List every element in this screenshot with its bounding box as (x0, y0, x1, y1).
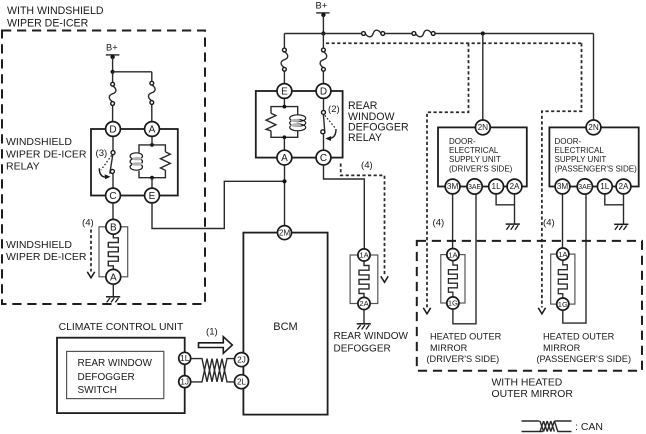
svg-text:1L: 1L (180, 354, 190, 363)
pin 2A (defogger) (358, 297, 370, 309)
fuse F2 (149, 81, 156, 104)
svg-text:(2): (2) (328, 104, 340, 115)
ground (defogger) (357, 324, 371, 330)
wire B+ down (322, 15, 324, 34)
pin 3AE (driver) (467, 179, 482, 194)
pin 2A (passenger) (616, 179, 631, 194)
svg-text:2A: 2A (509, 182, 520, 191)
svg-text:RELAY: RELAY (6, 161, 40, 173)
svg-text:(4): (4) (361, 160, 373, 171)
svg-text:1G: 1G (448, 299, 458, 308)
resistor (rear relay) (266, 113, 276, 131)
dashed drop to passenger unit (542, 43, 582, 307)
wire A down to BCM 2M (284, 165, 286, 226)
svg-text:E: E (281, 87, 288, 98)
svg-text:SUPPLY UNIT: SUPPLY UNIT (449, 155, 501, 164)
svg-text:OUTER MIRROR: OUTER MIRROR (492, 389, 574, 400)
svg-text:DEFOGGER: DEFOGGER (334, 343, 391, 354)
ground (passenger door) (614, 224, 628, 230)
pin 2J (235, 353, 249, 367)
pin 3AE (passenger) (577, 179, 592, 194)
fuse F6 (320, 48, 327, 71)
pin A (145, 122, 160, 137)
switch dotted throw (rear) (325, 115, 335, 128)
wire A to ground (112, 284, 114, 297)
node junction left B+ (111, 70, 115, 74)
svg-text:SUPPLY UNIT: SUPPLY UNIT (555, 155, 607, 164)
ground (driver door) (506, 224, 520, 230)
wire C to de-icer B (112, 203, 114, 221)
switch dotted throw (101, 155, 112, 170)
svg-text:(PASSENGER'S SIDE): (PASSENGER'S SIDE) (537, 354, 632, 364)
wire coil bottom to E (151, 178, 153, 189)
svg-text:1L: 1L (492, 182, 502, 191)
switch blade (2) (323, 114, 325, 133)
fuse F3 (bus) (362, 30, 385, 37)
node rear coil bottom (283, 135, 287, 139)
pin 1L (climate) (179, 352, 191, 364)
svg-text:HEATED OUTER: HEATED OUTER (430, 332, 502, 342)
heated mirror element box (passenger) (551, 254, 575, 304)
node coil bottom (150, 176, 154, 180)
CAN twisted pair wire B (192, 359, 235, 382)
switch upper contact (rear) (322, 110, 326, 114)
node coil top (150, 143, 154, 147)
svg-text:C: C (109, 191, 116, 202)
pin 2A (driver) (507, 179, 522, 194)
svg-text:2A: 2A (618, 182, 629, 191)
switch lower contact (110, 169, 114, 173)
svg-text:DOOR-: DOOR- (449, 137, 476, 146)
pin 1L (driver) (489, 179, 504, 194)
svg-text:3AE: 3AE (578, 184, 591, 191)
wire F5 to pin E (283, 72, 285, 85)
node rear coil top (283, 105, 287, 109)
pin 1G (driver mirror) (447, 297, 459, 309)
svg-text:1L: 1L (600, 182, 610, 191)
pin C (rear relay) (316, 150, 331, 165)
wire C to rear defogger 1A (324, 165, 365, 249)
svg-text:WITH HEATED: WITH HEATED (492, 378, 563, 389)
node main B+ junction (321, 31, 325, 35)
dashed option box (with windshield wiper de-icer) (2, 31, 205, 305)
switch stub from D (rear) (323, 98, 325, 110)
BCM box (243, 233, 327, 415)
svg-text:(DRIVER'S SIDE): (DRIVER'S SIDE) (449, 164, 513, 173)
switch stub to C (112, 173, 114, 188)
switch stub to C (rear) (323, 134, 325, 151)
pin 2M (278, 226, 292, 240)
svg-text:(PASSENGER'S SIDE): (PASSENGER'S SIDE) (555, 164, 638, 173)
pin C (106, 188, 121, 203)
pin E (145, 188, 160, 203)
dashed arrow (4) to defogger (341, 164, 385, 277)
windshield wiper de-icer element box (99, 227, 128, 277)
svg-text:WIPER DE-ICER: WIPER DE-ICER (7, 17, 89, 29)
resistor (relay) (161, 152, 171, 170)
de-icer heater resistor (108, 234, 118, 270)
svg-text:MIRROR: MIRROR (430, 343, 468, 353)
svg-text:A: A (281, 153, 288, 164)
dashed option bus wire (326, 42, 582, 44)
svg-text:DOOR-: DOOR- (555, 137, 582, 146)
wire down to fuse F6 (322, 34, 324, 48)
mirror heater resistor (passenger) (558, 261, 567, 298)
svg-text:MIRROR: MIRROR (543, 343, 581, 353)
pin D (106, 122, 121, 137)
pin 1L (passenger) (597, 179, 612, 194)
svg-text:WIPER DE-ICER: WIPER DE-ICER (6, 148, 87, 160)
svg-text:2N: 2N (588, 123, 599, 132)
wire 1L/2A to ground (driver) (496, 194, 514, 224)
wire down to fuse F1 (112, 72, 114, 82)
pin 3M (passenger) (555, 179, 570, 194)
wire B+ down to junction (112, 57, 114, 72)
switch blade (3) (110, 155, 113, 174)
dashed arrow (4) left (90, 230, 92, 272)
svg-text:CLIMATE CONTROL UNIT: CLIMATE CONTROL UNIT (59, 322, 184, 333)
rear window defogger element box (350, 255, 378, 304)
dashed drop to driver unit (427, 43, 469, 307)
pin A (de-icer) (106, 269, 121, 284)
switch lower contact (rear) (321, 130, 325, 134)
main B+ bus wire (284, 33, 593, 35)
pin 1A (driver mirror) (447, 249, 459, 261)
svg-text:1A: 1A (558, 250, 568, 259)
svg-text:WINDSHIELD: WINDSHIELD (6, 136, 72, 148)
door-electrical supply unit (passenger) box (549, 127, 638, 186)
B+ supply terminal (center) (316, 0, 330, 17)
svg-text:2N: 2N (478, 123, 489, 132)
switch motion arrow (rear) (330, 129, 336, 138)
wire fuse F2 to pin A (151, 105, 153, 122)
svg-text:1A: 1A (359, 251, 369, 260)
pin B (106, 219, 121, 234)
wire F6 to pin D (322, 72, 324, 85)
svg-text:B+: B+ (316, 0, 328, 10)
coil L2 (290, 115, 306, 131)
svg-text:SWITCH: SWITCH (78, 385, 117, 396)
pin 1J (climate) (179, 376, 191, 388)
svg-text:B: B (110, 222, 117, 233)
svg-text:3M: 3M (447, 182, 459, 191)
wire mirror 1G loop to 3AE (driver) (453, 194, 476, 324)
pin 2N (driver) (475, 120, 490, 135)
svg-text:1A: 1A (448, 250, 458, 259)
rear window defogger switch box (67, 351, 164, 398)
svg-text:: CAN: : CAN (575, 421, 603, 433)
svg-text:2J: 2J (237, 355, 246, 364)
svg-text:E: E (149, 191, 156, 202)
svg-text:(DRIVER'S SIDE): (DRIVER'S SIDE) (427, 354, 500, 364)
wire bus down to passenger 2N (593, 34, 595, 121)
pin D (rear relay) (316, 84, 331, 99)
svg-text:(4): (4) (433, 218, 445, 229)
svg-text:WIPER DE-ICER: WIPER DE-ICER (6, 251, 87, 263)
pin 1G (passenger mirror) (557, 298, 569, 310)
svg-text:REAR WINDOW: REAR WINDOW (334, 331, 409, 342)
svg-text:1J: 1J (180, 377, 189, 386)
svg-text:A: A (110, 272, 117, 283)
svg-text:C: C (320, 153, 327, 164)
fuse F1 (109, 82, 116, 105)
pin A (rear relay) (277, 150, 292, 165)
rear window defogger relay box (256, 91, 343, 158)
wire junction to right branch (113, 71, 152, 73)
svg-text:BCM: BCM (273, 321, 297, 333)
ground (de-icer) (106, 297, 120, 303)
wire A to coil top (151, 136, 153, 145)
door-electrical supply unit (driver) box (438, 127, 527, 186)
svg-text:ELECTRICAL: ELECTRICAL (555, 146, 605, 155)
windshield wiper de-icer relay box (91, 129, 178, 196)
CAN twisted pair wire A (192, 359, 235, 382)
dashed option box (with heated outer mirror) (417, 241, 642, 371)
fuse F5 (281, 48, 288, 71)
wire 2A to ground (363, 310, 365, 324)
pin 1A (passenger mirror) (557, 248, 569, 260)
wire 3M to mirror 1A (driver) (452, 194, 454, 248)
CAN direction block arrow (199, 337, 233, 354)
svg-text:2M: 2M (279, 228, 291, 237)
CAN legend symbol (522, 421, 572, 432)
pin 3M (driver) (445, 179, 460, 194)
svg-text:(1): (1) (206, 327, 218, 338)
defogger grid resistor (359, 262, 369, 298)
climate control unit box (57, 338, 185, 413)
wire 3M to mirror 1A (passenger) (562, 194, 564, 248)
switch upper contact (111, 151, 115, 155)
svg-text:3AE: 3AE (468, 184, 481, 191)
pin 2N (passenger) (586, 120, 601, 135)
wire E to BCM 2M net (152, 181, 285, 228)
pin 1A (defogger) (358, 249, 370, 261)
wire bus down to driver 2N (482, 34, 484, 121)
svg-text:2A: 2A (359, 299, 369, 308)
svg-text:D: D (109, 125, 116, 136)
wire down to fuse F2 (151, 72, 153, 81)
relay coil branch rails (139, 145, 165, 178)
svg-text:WINDSHIELD: WINDSHIELD (6, 239, 72, 251)
switch stub from D (112, 136, 114, 151)
pin 2L (235, 375, 249, 389)
svg-text:ELECTRICAL: ELECTRICAL (449, 146, 499, 155)
svg-text:RELAY: RELAY (348, 132, 382, 144)
svg-text:2L: 2L (237, 377, 247, 386)
svg-text:REAR WINDOW: REAR WINDOW (78, 358, 153, 369)
fuse F4 (bus) (412, 30, 435, 37)
mirror heater resistor (driver) (448, 261, 457, 296)
wire down to fuse F5 (283, 34, 285, 48)
svg-text:3M: 3M (557, 182, 569, 191)
switch motion arrow (99, 168, 105, 177)
relay coil rails (rear) (271, 98, 298, 151)
B+ supply terminal (left) (106, 42, 120, 59)
svg-text:HEATED OUTER: HEATED OUTER (543, 332, 615, 342)
pin E (rear relay) (277, 84, 292, 99)
svg-text:DEFOGGER: DEFOGGER (78, 372, 135, 383)
coil L1 (130, 153, 143, 170)
svg-text:1G: 1G (558, 300, 568, 309)
node bus to driver door (481, 31, 485, 35)
wire 1L/2A to ground (passenger) (605, 194, 624, 224)
wire mirror 1G loop to 3AE (passenger) (563, 194, 586, 323)
svg-text:(4): (4) (82, 218, 94, 229)
svg-text:(3): (3) (96, 148, 108, 159)
svg-text:WITH WINDSHIELD: WITH WINDSHIELD (7, 5, 104, 17)
svg-text:(4): (4) (543, 218, 555, 229)
node A/E junction (282, 179, 286, 183)
heated mirror element box (driver) (441, 255, 465, 303)
svg-text:B+: B+ (106, 42, 118, 52)
wire fuse F1 to pin D (112, 106, 114, 122)
svg-text:A: A (149, 125, 156, 136)
svg-text:D: D (320, 87, 327, 98)
